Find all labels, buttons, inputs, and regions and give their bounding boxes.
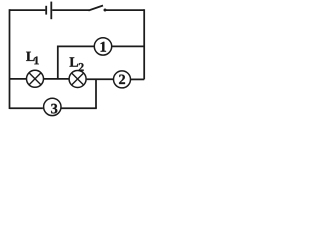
- meter 3 digit: [51, 104, 57, 114]
- wire meter 1 to right side: [112, 45, 145, 47]
- wire lamp L1 to lamp L2: [44, 78, 70, 80]
- switch contact dot: [104, 9, 107, 12]
- wire left side: [9, 9, 11, 109]
- wire node A to meter 1: [57, 45, 94, 47]
- wire meter 2 to right side: [130, 78, 144, 80]
- lamp L1 cross: [29, 73, 41, 85]
- switch lever: [89, 6, 104, 11]
- label L2: [70, 57, 84, 70]
- wire middle left to lamp L1: [10, 78, 27, 80]
- wire meter 3 to left side: [10, 107, 43, 109]
- battery cell short plate: [45, 6, 47, 15]
- meter 3 circle: [44, 98, 61, 115]
- wire node B to meter 3: [60, 107, 97, 109]
- label L1: [26, 52, 39, 65]
- wire branch node B down: [95, 79, 97, 108]
- lamp L2 circle: [69, 71, 86, 88]
- wire branch node A up: [57, 46, 59, 79]
- meter 2 circle: [114, 71, 131, 88]
- wire top-left lead: [10, 9, 46, 11]
- wire switch to top-right corner: [105, 9, 145, 11]
- battery cell long plate: [50, 2, 52, 20]
- wire battery to switch: [52, 9, 89, 11]
- meter 1 circle: [94, 38, 111, 55]
- lamp L1 circle: [27, 70, 44, 87]
- lamp L2 cross: [72, 73, 84, 85]
- wire lamp L2 to meter 2: [87, 78, 114, 80]
- wire right side: [143, 9, 145, 79]
- meter 2 digit: [119, 75, 125, 84]
- meter 1 digit: [101, 42, 106, 52]
